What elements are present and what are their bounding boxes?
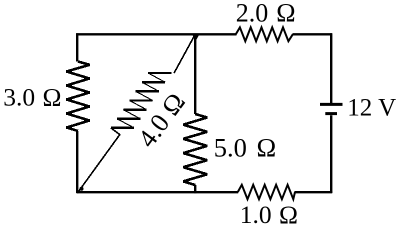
svg-text:5.0 Ω: 5.0 Ω <box>214 132 276 162</box>
wire top right <box>293 33 333 35</box>
wire top (left node to R2) <box>76 33 236 35</box>
wire diagonal upper <box>174 34 195 73</box>
wire bottom right <box>295 191 333 193</box>
battery V1 short plate <box>325 112 337 115</box>
wire left upper <box>76 33 78 61</box>
wire right upper <box>330 33 332 103</box>
resistor R3 3.0 ohm <box>67 62 90 132</box>
resistor R4 jogs <box>117 73 165 128</box>
junction node top <box>192 34 200 40</box>
svg-text:4.0 Ω: 4.0 Ω <box>132 87 192 153</box>
resistor R2 2.0 ohm <box>236 27 293 41</box>
svg-text:1.0 Ω: 1.0 Ω <box>240 200 298 229</box>
wire middle stub <box>194 185 196 193</box>
wire middle upper <box>194 34 196 114</box>
battery V1 long plate <box>320 103 343 106</box>
wire right lower <box>330 115 332 193</box>
svg-text:3.0 Ω: 3.0 Ω <box>3 82 61 111</box>
svg-text:2.0 Ω: 2.0 Ω <box>236 0 296 28</box>
wire left lower <box>76 131 78 193</box>
junction node bottom-left <box>80 187 84 191</box>
wire diagonal lower <box>78 128 120 192</box>
resistor R1 1.0 ohm <box>238 185 295 199</box>
resistor R5 5.0 ohm <box>183 114 207 185</box>
wire bottom left <box>77 191 238 193</box>
resistor R4 4.0 ohm diagonal <box>111 73 171 128</box>
svg-text:12 V: 12 V <box>347 95 396 122</box>
